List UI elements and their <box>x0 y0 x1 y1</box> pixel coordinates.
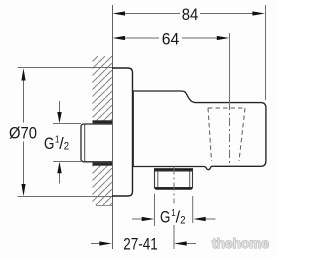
bottom G1/2 left extension line <box>154 194 156 227</box>
svg-text:G: G <box>160 208 170 227</box>
dimension 27-41 arrow left <box>91 243 101 245</box>
dimension D70 vertical line <box>23 78 25 187</box>
svg-text:64: 64 <box>162 29 180 48</box>
left G1/2 text <box>44 134 69 153</box>
dimension D70 arrow up <box>21 68 25 80</box>
dimension 64 arrow right <box>217 36 230 40</box>
dimension D70 bottom extension line <box>18 196 113 198</box>
svg-text:2: 2 <box>64 141 69 153</box>
outlet nipple top thick band <box>154 168 193 171</box>
dimension 27-41 arrow right <box>185 243 196 245</box>
svg-text:G: G <box>44 134 54 153</box>
wall bottom tick <box>96 205 112 207</box>
dimension D70 arrow down <box>21 184 25 196</box>
bottom G1/2 right extension line <box>192 196 194 223</box>
holder cone hidden top dashed <box>208 107 245 109</box>
wall hatched section lower <box>93 166 113 205</box>
left nut inner chamfer line <box>84 125 86 162</box>
left G1/2 arrow down <box>59 101 61 113</box>
dimension 84 arrow left <box>113 11 126 15</box>
dimension 84 line <box>123 13 254 15</box>
flange escutcheon <box>112 68 133 196</box>
outlet nipple body <box>155 171 193 188</box>
dimension 84 arrow right <box>252 11 265 15</box>
holder cone hidden right edge dashed <box>239 108 245 161</box>
left G1/2 top extension line <box>53 123 81 125</box>
svg-text:thehome: thehome <box>212 236 269 251</box>
left G1/2 arrow up <box>59 173 61 184</box>
dimension 64 right extension line <box>229 33 231 102</box>
dimension 84 right extension line <box>265 5 267 100</box>
wall hatched section upper <box>93 56 113 120</box>
holder centerline dash-dot <box>229 102 231 166</box>
wall hole edge lower (thick) <box>93 163 113 166</box>
outlet nipple chamfer left <box>157 172 159 188</box>
svg-text:Ø70: Ø70 <box>9 123 37 142</box>
svg-text:2: 2 <box>180 214 185 226</box>
left G1/2 bottom extension line <box>53 161 81 163</box>
holder cone hidden left edge dashed <box>208 108 212 161</box>
wall surface line / left extension line <box>112 5 114 249</box>
dimension 64 line <box>123 37 219 39</box>
left nut body <box>81 124 112 162</box>
bottom G1/2 text <box>160 208 186 227</box>
body arm outline <box>133 91 266 170</box>
bottom G1/2 arrow right <box>203 218 216 220</box>
svg-text:27-41: 27-41 <box>123 234 158 253</box>
outlet nipple chamfer right <box>189 172 191 188</box>
wall hole edge upper (thick) <box>93 120 113 123</box>
outlet nipple bottom thick band <box>155 187 193 190</box>
svg-text:84: 84 <box>182 5 199 24</box>
bottom G1/2 arrow left <box>132 218 145 220</box>
dimension D70 top extension line <box>18 67 113 69</box>
dimension 64 arrow left <box>113 36 126 40</box>
outlet centerline dash-dot upper <box>173 167 175 204</box>
outlet centerline lower / 27-41 extension <box>173 225 175 249</box>
